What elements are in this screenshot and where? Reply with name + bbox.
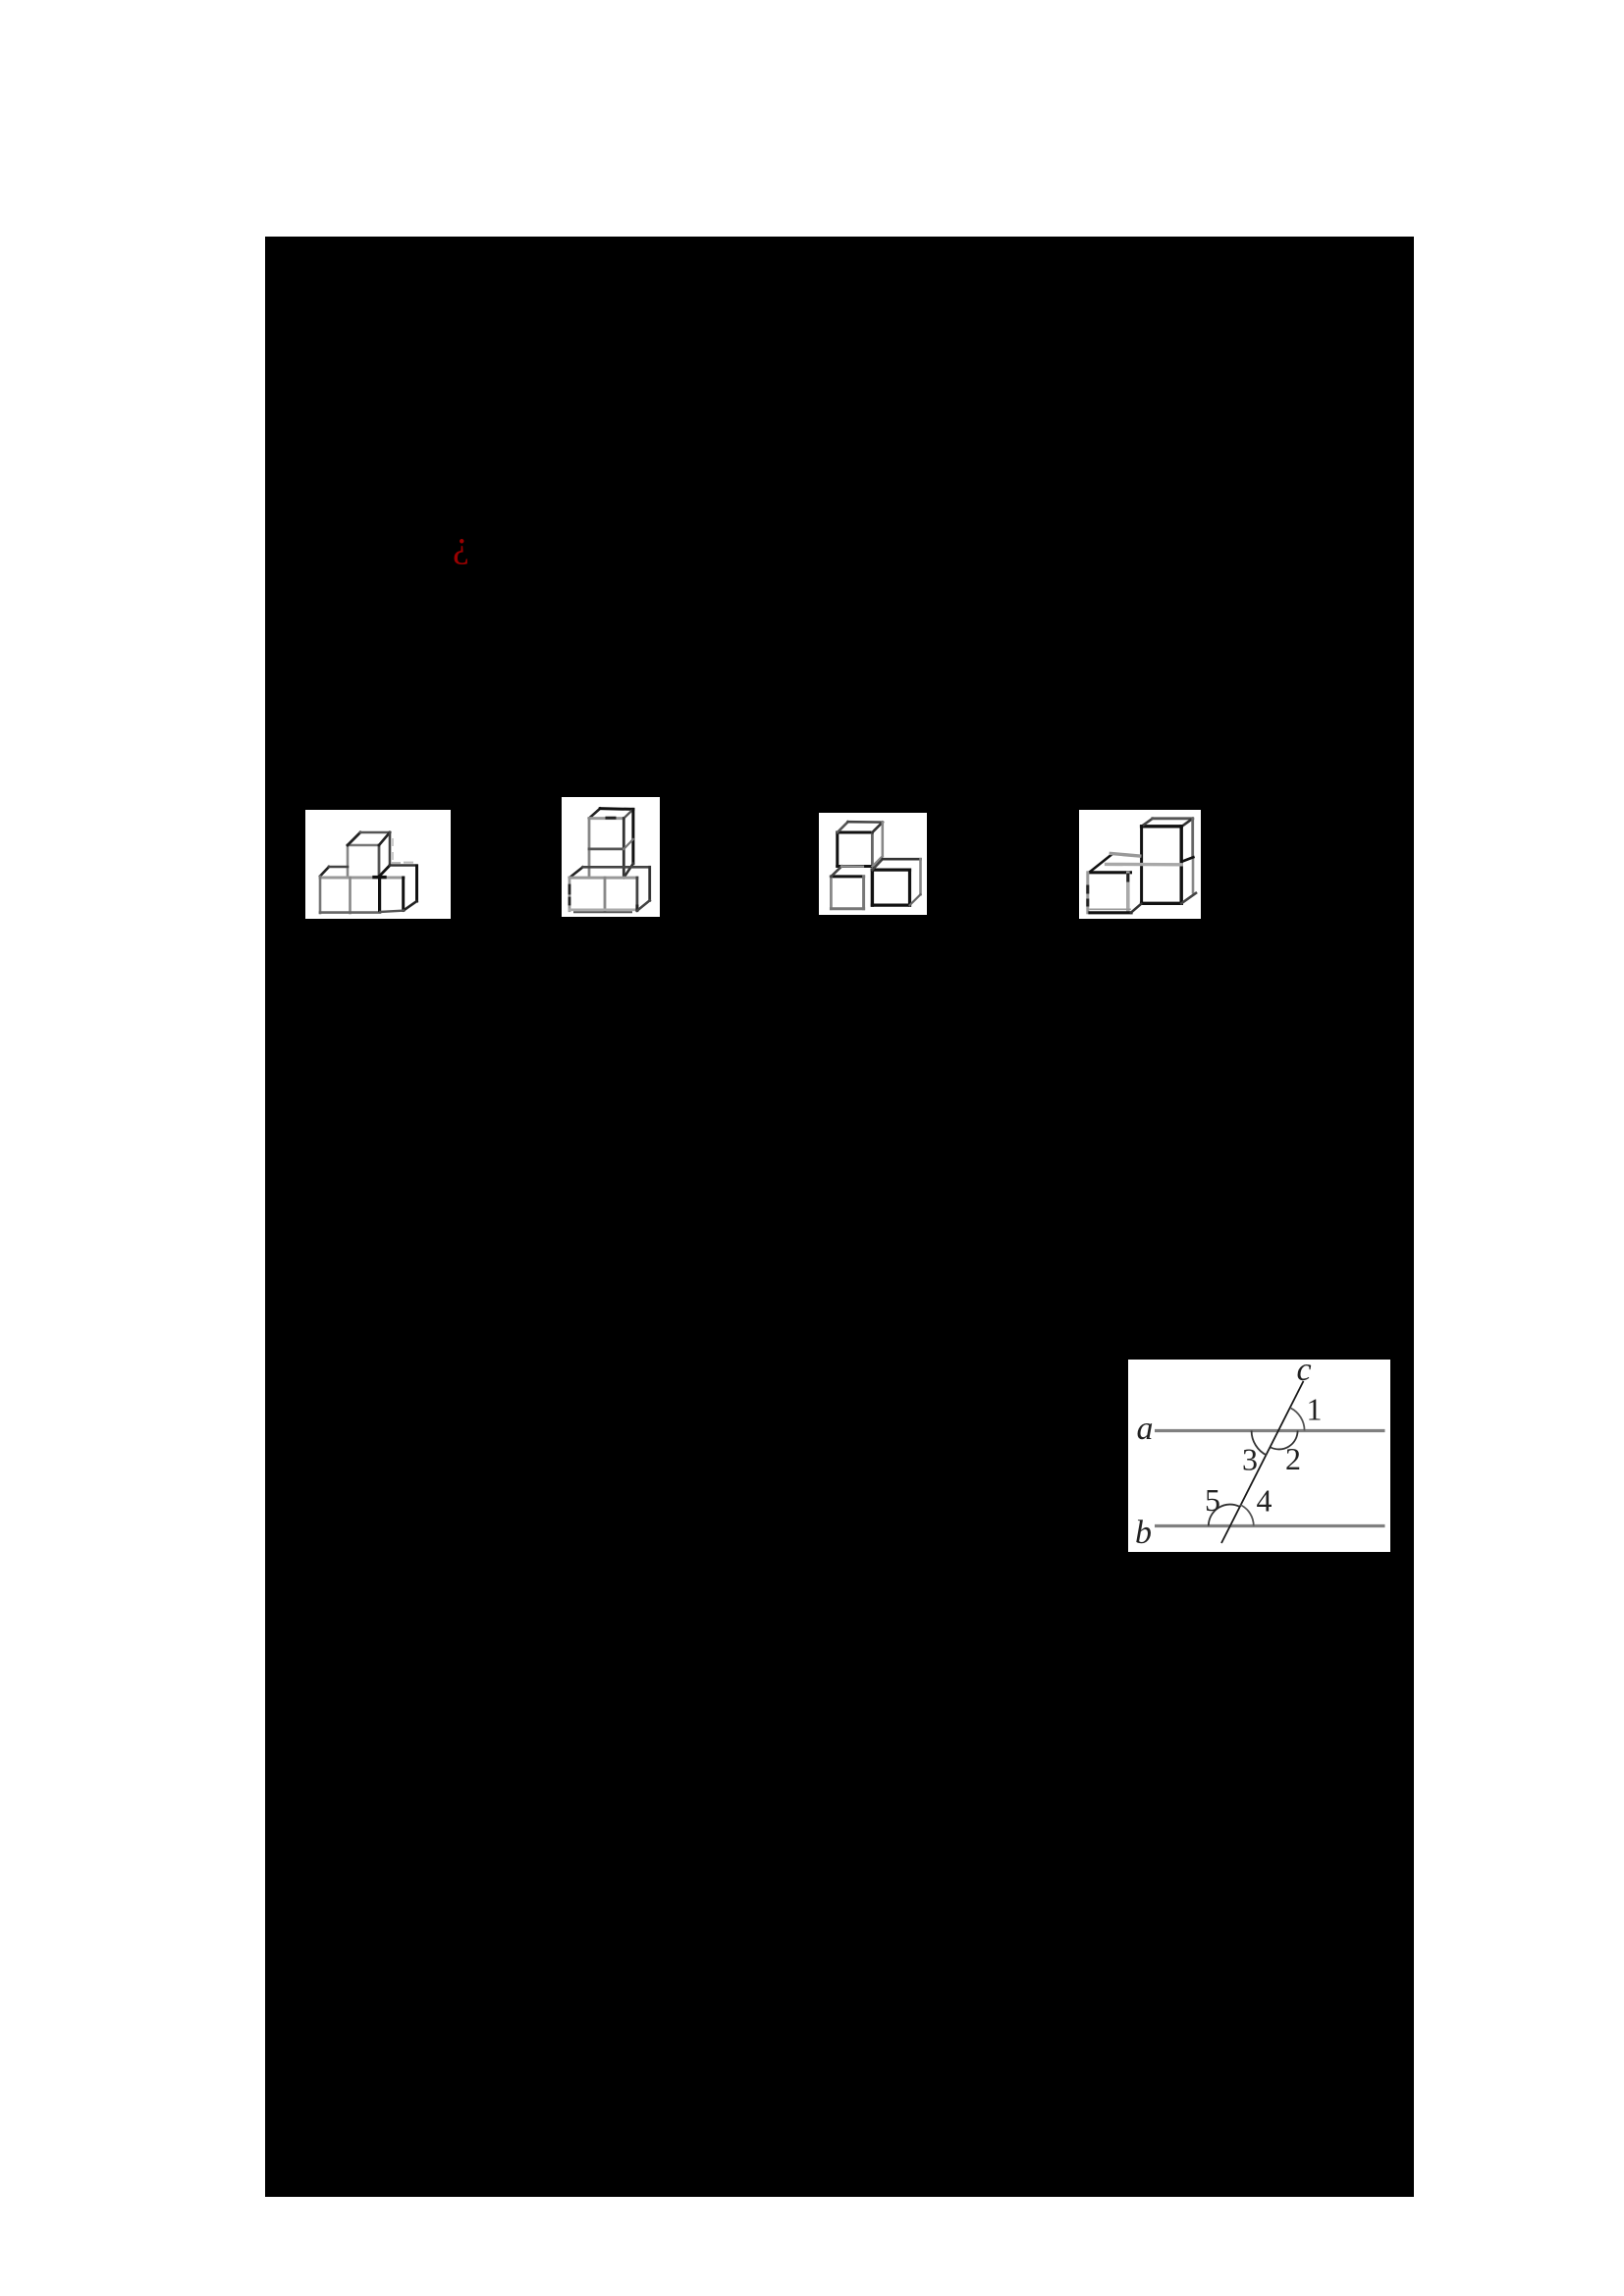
- svg-text:b: b: [1135, 1515, 1152, 1551]
- svg-text:5: 5: [1205, 1482, 1220, 1518]
- option A cube figure: [305, 810, 451, 919]
- front-left cube: [1088, 854, 1141, 913]
- black content panel: [265, 237, 1414, 2197]
- transversal line c: [1221, 1381, 1304, 1543]
- svg-text:1: 1: [1307, 1392, 1323, 1427]
- bottom-left cube: [831, 867, 863, 909]
- angle 3 arc: [1252, 1431, 1268, 1456]
- angle 1 arc: [1290, 1408, 1305, 1430]
- option D cube figure: [1079, 810, 1201, 919]
- bottom-right cube: [379, 866, 417, 913]
- red inverted question mark: [453, 526, 469, 563]
- hidden edge hints: [392, 839, 412, 863]
- svg-text:c: c: [1296, 1360, 1311, 1388]
- stacked tower cubes (right): [1107, 819, 1196, 904]
- angle 5 arc: [1209, 1505, 1240, 1526]
- top-left cube: [838, 822, 883, 866]
- top cube: [348, 832, 390, 877]
- svg-text:a: a: [1137, 1411, 1154, 1447]
- bottom-right cube: [872, 859, 920, 905]
- line b: [1155, 1524, 1385, 1527]
- option C cube figure: [819, 813, 927, 915]
- stacked tower cubes: [589, 809, 633, 879]
- svg-text:2: 2: [1285, 1441, 1301, 1476]
- svg-text:3: 3: [1242, 1442, 1258, 1477]
- bottom-left cube: [320, 867, 404, 913]
- angle 2 arc: [1271, 1431, 1297, 1450]
- option B cube figure: [562, 797, 660, 917]
- angle 4 arc: [1240, 1505, 1253, 1526]
- line a: [1155, 1429, 1385, 1432]
- svg-text:4: 4: [1257, 1483, 1272, 1519]
- bottom row of two cubes: [569, 867, 650, 912]
- parallel lines with transversal figure: [1128, 1360, 1390, 1552]
